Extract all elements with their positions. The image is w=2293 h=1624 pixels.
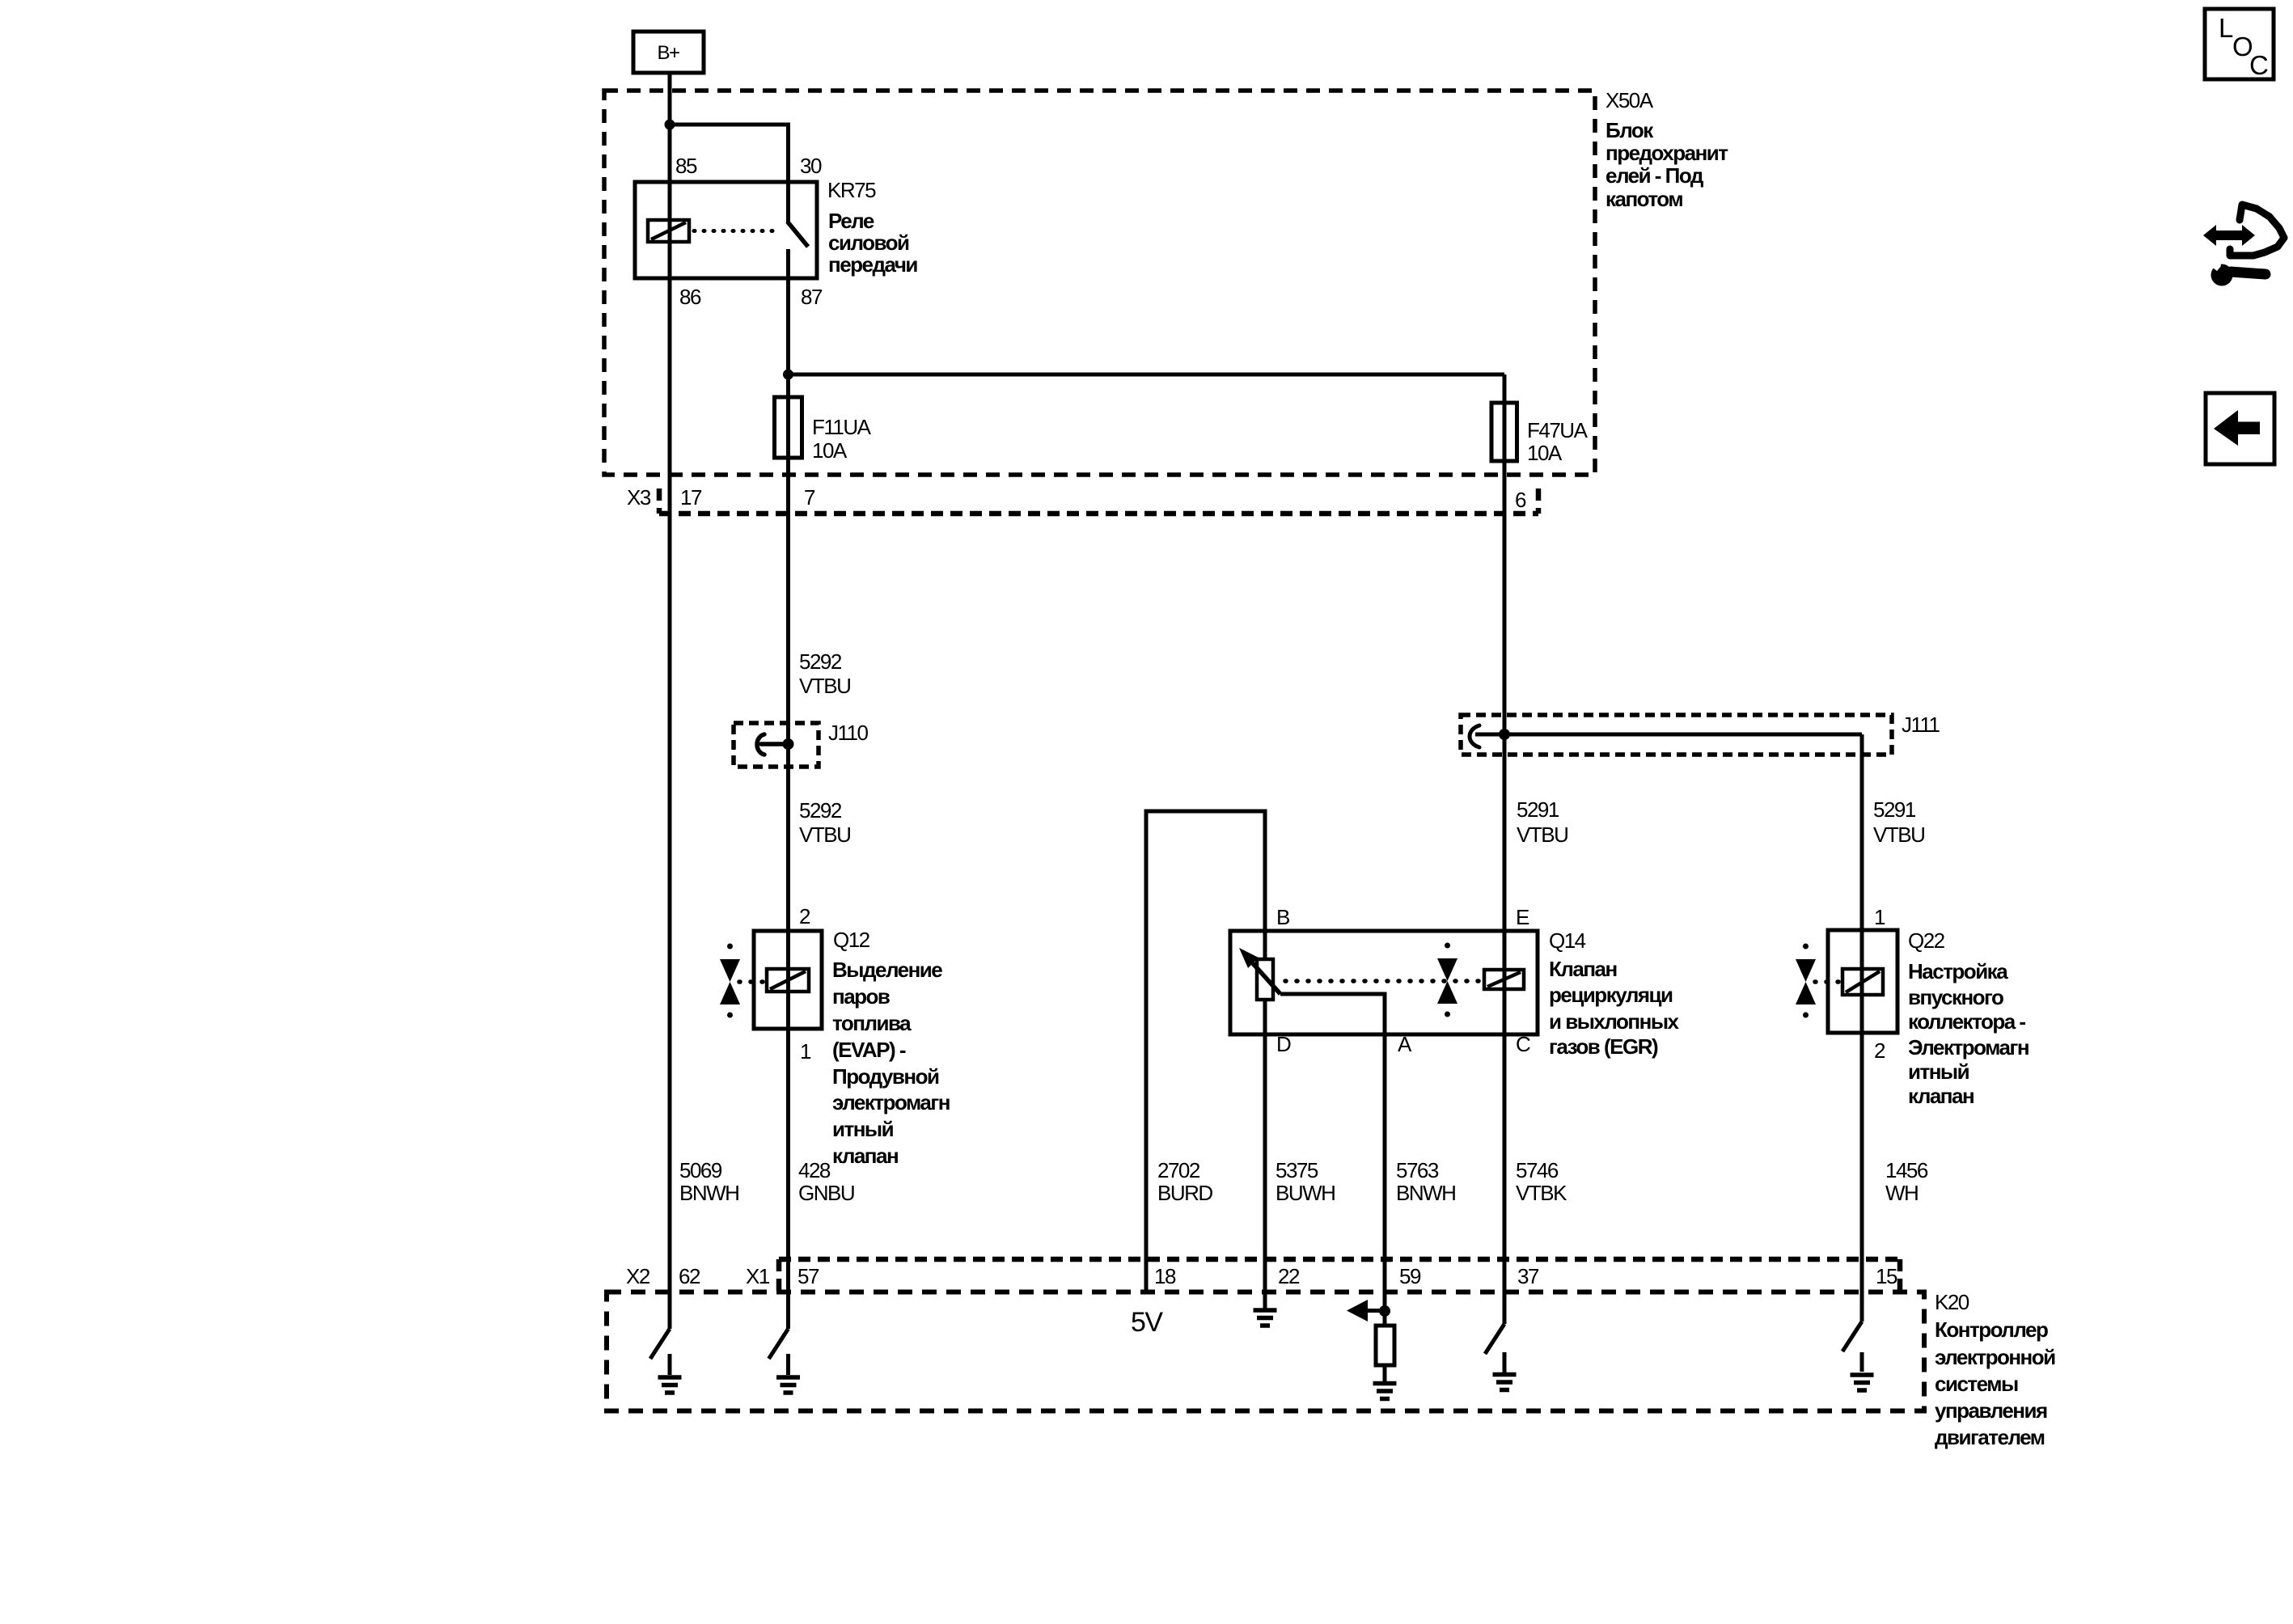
svg-text:18: 18 (1154, 1264, 1176, 1288)
tools icon wrench (2206, 256, 2266, 286)
svg-text:клапан: клапан (1908, 1084, 1974, 1108)
wire label 428 GNBU (798, 1158, 854, 1205)
wire B+ down through relay 85/86, X3 pin 17, to K20 pin 62 (668, 73, 672, 1329)
svg-text:7: 7 (804, 485, 815, 510)
Q14 pin labels B E D A C (1276, 905, 1530, 1056)
svg-text:37: 37 (1517, 1264, 1539, 1288)
svg-text:1: 1 (1874, 905, 1885, 929)
K20 ground below resistor pin 59 (1373, 1384, 1397, 1399)
svg-text:управления: управления (1935, 1398, 2047, 1423)
svg-text:VTBU: VTBU (1517, 823, 1567, 847)
svg-text:Контроллер: Контроллер (1935, 1317, 2048, 1342)
svg-text:15: 15 (1876, 1264, 1897, 1288)
Q14 position sensor (pot) (1257, 959, 1273, 1000)
svg-text:(EVAP) -: (EVAP) - (832, 1038, 906, 1062)
Q22 pin labels 1 2 (1874, 905, 1885, 1063)
svg-text:B: B (1276, 905, 1289, 929)
svg-text:KR75: KR75 (827, 178, 876, 202)
svg-text:Реле: Реле (828, 209, 874, 233)
svg-text:клапан: клапан (832, 1144, 898, 1168)
svg-text:VTBU: VTBU (1873, 823, 1924, 847)
wire tee across to F47UA (789, 373, 1505, 377)
splice J110 curl (757, 734, 788, 755)
tools icon routing curl (2230, 205, 2284, 256)
svg-text:F47UA: F47UA (1527, 418, 1589, 442)
svg-text:X2: X2 (626, 1264, 650, 1288)
wire label 5291 VTBU right (1873, 797, 1924, 847)
wire F47UA down through X3 pin 6, J111, Q14 E-C, to K20 pin 37 (1503, 374, 1507, 1324)
svg-text:Электромагн: Электромагн (1908, 1035, 2029, 1059)
Q22 description (1908, 959, 2029, 1108)
svg-text:A: A (1398, 1032, 1412, 1056)
svg-text:VTBK: VTBK (1516, 1181, 1567, 1205)
svg-text:5375: 5375 (1276, 1158, 1318, 1182)
wire label 2702 BURD (1157, 1158, 1212, 1205)
wire label 5763 BNWH (1396, 1158, 1455, 1205)
splice J111 junction dot (1499, 729, 1510, 740)
svg-text:2: 2 (799, 904, 810, 928)
X3 pin labels (627, 485, 1526, 512)
relay coil (648, 220, 689, 242)
svg-text:BURD: BURD (1157, 1181, 1212, 1205)
back arrow box (2206, 393, 2274, 464)
svg-text:17: 17 (680, 485, 702, 510)
svg-text:62: 62 (679, 1264, 700, 1288)
fuse F11UA (775, 397, 802, 458)
wire label 5291 VTBU left (1517, 797, 1567, 847)
K20 description (1935, 1317, 2055, 1449)
svg-text:VTBU: VTBU (799, 674, 850, 698)
svg-text:X3: X3 (627, 485, 651, 510)
svg-text:5291: 5291 (1517, 797, 1559, 822)
svg-text:предохранит: предохранит (1606, 141, 1728, 165)
wire label 5746 VTBK (1516, 1158, 1567, 1205)
svg-text:5069: 5069 (679, 1158, 722, 1182)
K20 pin labels (626, 1264, 1897, 1288)
connector X3 row (659, 488, 1538, 514)
svg-text:B+: B+ (657, 42, 679, 64)
K20 signal arrow at pin 59 (1347, 1300, 1385, 1322)
svg-text:газов (EGR): газов (EGR) (1549, 1034, 1658, 1059)
svg-text:Продувной: Продувной (832, 1064, 939, 1089)
svg-text:итный: итный (1908, 1059, 1969, 1084)
junction node 87 tee (783, 370, 793, 380)
wire label 1456 WH (1885, 1158, 1928, 1205)
svg-text:86: 86 (679, 285, 701, 309)
svg-text:Настройка: Настройка (1908, 959, 2008, 983)
svg-text:двигателем: двигателем (1935, 1425, 2045, 1449)
Q12 pin labels 2 1 (799, 904, 811, 1064)
svg-text:D: D (1276, 1032, 1291, 1056)
svg-text:5291: 5291 (1873, 797, 1916, 822)
wire label 5069 BNWH (679, 1158, 738, 1205)
svg-text:87: 87 (801, 285, 823, 309)
svg-text:85: 85 (675, 154, 697, 178)
wire label 5292 VTBU lower (799, 798, 850, 847)
svg-text:K20: K20 (1935, 1290, 1969, 1314)
svg-text:итный: итный (832, 1117, 894, 1141)
svg-text:1456: 1456 (1885, 1158, 1928, 1182)
svg-text:6: 6 (1515, 488, 1526, 512)
svg-text:10A: 10A (1527, 441, 1563, 465)
solenoid Q22 box (1828, 930, 1897, 1033)
svg-text:BNWH: BNWH (679, 1181, 738, 1205)
relay KR75 box (635, 182, 817, 278)
K20 switch and ground at pin 62 (650, 1329, 682, 1393)
svg-text:Q14: Q14 (1549, 928, 1586, 953)
solenoid Q12 box (754, 931, 822, 1029)
Q14 coil (1484, 970, 1524, 989)
svg-text:J111: J111 (1902, 713, 1940, 737)
svg-text:2702: 2702 (1157, 1158, 1200, 1182)
Q14 wiper arrow (1239, 948, 1280, 994)
svg-text:электронной: электронной (1935, 1345, 2055, 1369)
Q22 valve actuator (1796, 944, 1816, 1018)
Q14 description (1549, 957, 1680, 1059)
svg-text:X50A: X50A (1606, 88, 1654, 112)
relay dotted link (694, 229, 781, 233)
K20 resistor at pin 59 (1376, 1311, 1394, 1382)
K20 switch and ground at pin 15 (1842, 1322, 1874, 1390)
svg-text:L: L (2219, 13, 2233, 43)
Q14 valve actuator (1437, 943, 1457, 1017)
svg-text:Q12: Q12 (833, 928, 870, 952)
svg-text:капотом: капотом (1606, 187, 1682, 211)
svg-text:5V: 5V (1131, 1307, 1163, 1338)
splice J110 dashed box (734, 723, 819, 767)
svg-text:X1: X1 (746, 1264, 770, 1288)
svg-text:Блок: Блок (1606, 118, 1654, 142)
svg-text:передачи: передачи (828, 252, 917, 277)
label F47UA 10A (1527, 418, 1589, 465)
splice J110 junction dot (783, 738, 794, 750)
LOC marker box (2205, 9, 2274, 80)
svg-text:GNBU: GNBU (798, 1181, 854, 1205)
svg-text:BNWH: BNWH (1396, 1181, 1455, 1205)
svg-text:Клапан: Клапан (1549, 957, 1617, 981)
svg-text:E: E (1516, 905, 1529, 929)
splice J111 dashed box (1461, 715, 1892, 755)
splice J111 curl (1470, 725, 1479, 747)
svg-text:VTBU: VTBU (799, 823, 850, 847)
wire J111 down to Q22 pin 1-2, to K20 pin 15 (1860, 734, 1864, 1322)
Q14 wiper wire to pin A, down to K20 pin 59 (1280, 994, 1385, 1311)
EGR valve Q14 box (1230, 931, 1538, 1034)
fuse F47UA (1491, 403, 1517, 461)
K20 junction dot at pin 59 (1379, 1305, 1390, 1317)
label F11UA 10A (812, 415, 872, 463)
tools icon double arrow (2203, 225, 2255, 246)
svg-text:электромагн: электромагн (832, 1090, 950, 1114)
wire label 5292 VTBU upper (799, 649, 850, 698)
wire label 5375 BUWH (1276, 1158, 1335, 1205)
wire branch to relay pin 30 (670, 125, 789, 222)
svg-text:топлива: топлива (832, 1011, 912, 1035)
fuse block X50A dashed box (604, 91, 1595, 475)
svg-text:5763: 5763 (1396, 1158, 1439, 1182)
K20 switch and ground at pin 37 (1485, 1324, 1517, 1390)
X50A description (1606, 118, 1728, 211)
power node B+ (633, 32, 704, 73)
KR75 description (828, 209, 917, 277)
svg-text:428: 428 (798, 1158, 831, 1182)
svg-text:5292: 5292 (799, 649, 842, 674)
wire 2702 from K20 pin 18 up and over to Q14 pin B (1146, 811, 1265, 1292)
svg-text:2: 2 (1874, 1038, 1885, 1063)
svg-text:5746: 5746 (1516, 1158, 1559, 1182)
svg-text:Q22: Q22 (1908, 928, 1945, 953)
wire Q14 pin D down to K20 pin 22 ground (1263, 1000, 1267, 1309)
Q12 dotted link (739, 979, 768, 984)
svg-text:и выхлопных: и выхлопных (1549, 1009, 1680, 1034)
svg-text:C: C (1516, 1032, 1530, 1056)
svg-text:10A: 10A (812, 438, 848, 463)
svg-text:F11UA: F11UA (812, 415, 872, 439)
svg-text:59: 59 (1399, 1264, 1421, 1288)
svg-text:WH: WH (1885, 1181, 1918, 1205)
svg-text:1: 1 (800, 1039, 811, 1064)
connector X1 pin row (779, 1259, 1900, 1292)
svg-text:рециркуляци: рециркуляци (1549, 983, 1673, 1007)
svg-text:впускного: впускного (1908, 985, 2003, 1009)
pin labels 85 30 86 87 (675, 154, 823, 309)
Q14 dotted link (1285, 979, 1479, 983)
K20 ground at pin 22 (1254, 1310, 1277, 1326)
svg-text:силовой: силовой (828, 230, 909, 255)
svg-text:30: 30 (800, 154, 822, 178)
svg-text:BUWH: BUWH (1276, 1181, 1335, 1205)
wire relay 87 down through F11UA, X3 pin 7, J110, Q12, to K20 pin 57 (786, 249, 790, 1329)
svg-text:Выделение: Выделение (832, 958, 942, 982)
Q12 valve actuator (720, 944, 740, 1018)
wire J111 across (1475, 733, 1862, 737)
ECM K20 dashed box (607, 1292, 1924, 1411)
svg-text:C: C (2249, 50, 2268, 80)
Q22 coil (1842, 969, 1883, 995)
relay switch blade 30-87 (788, 222, 809, 247)
junction node at B+ branch (665, 120, 675, 130)
svg-text:коллектора -: коллектора - (1908, 1009, 2025, 1034)
svg-text:елей - Под: елей - Под (1606, 163, 1704, 188)
svg-text:5292: 5292 (799, 798, 842, 823)
Q12 description (832, 958, 950, 1168)
Q22 dotted link (1815, 979, 1844, 984)
svg-text:22: 22 (1278, 1264, 1300, 1288)
svg-text:J110: J110 (828, 721, 868, 745)
K20 switch and ground at pin 57 (769, 1329, 801, 1393)
svg-text:системы: системы (1935, 1372, 2018, 1396)
svg-text:57: 57 (797, 1264, 819, 1288)
svg-text:паров: паров (832, 984, 890, 1009)
Q12 coil (767, 969, 809, 992)
